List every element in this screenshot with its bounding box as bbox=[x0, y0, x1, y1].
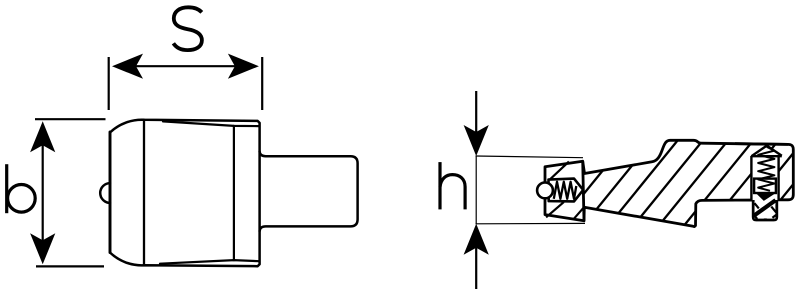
adapter body outline bbox=[110, 120, 260, 266]
channel top chamfer / spring seat bbox=[751, 146, 781, 157]
adapter internal vertical line x=144 bbox=[143, 120, 145, 266]
h arrow line top bbox=[475, 91, 477, 134]
ball-and-spring pocket (white) bbox=[549, 179, 584, 202]
plate hatch lines bbox=[546, 162, 584, 220]
b arrowhead up bbox=[30, 121, 55, 152]
h extension line bottom bbox=[476, 222, 586, 224]
square drive plug bbox=[260, 152, 358, 232]
h arrow line bottom bbox=[475, 246, 477, 289]
detent spring (horizontal zigzag) bbox=[554, 182, 577, 199]
S dimension line bbox=[134, 65, 237, 67]
pin head rectangle bbox=[754, 179, 776, 193]
protruding pin cross hatch bbox=[754, 200, 776, 216]
b extension line bottom bbox=[36, 265, 104, 267]
adapter internal vertical line x=234 bbox=[233, 126, 235, 260]
protruding pin (white) bbox=[755, 200, 776, 218]
adapter internal top ledge line bbox=[163, 121, 259, 126]
S arrowhead left bbox=[112, 54, 143, 79]
S extension line left bbox=[108, 57, 110, 110]
h connector line between extension lines bbox=[475, 156, 477, 224]
b arrowhead down bbox=[30, 233, 55, 264]
label S bbox=[173, 7, 202, 50]
pin channel walls bbox=[751, 156, 778, 200]
label h bbox=[440, 162, 465, 209]
pin tip (black chevron) bbox=[756, 193, 776, 201]
S arrowhead right bbox=[228, 54, 259, 79]
insert tool body outline bbox=[545, 140, 793, 226]
b dimension line bbox=[42, 143, 44, 242]
label b bbox=[7, 164, 36, 213]
channel shoulder line bbox=[751, 155, 781, 157]
adapter left edge (bolder) bbox=[109, 132, 112, 253]
adapter internal bottom ledge line bbox=[160, 260, 259, 264]
h arrowhead top (pointing down) bbox=[464, 125, 489, 156]
h arrowhead bottom (pointing up) bbox=[464, 224, 489, 255]
pin spring (vertical zigzag) bbox=[758, 147, 774, 191]
detent ball bump on left face bbox=[100, 183, 110, 203]
b extension line top bbox=[35, 118, 106, 120]
main body hatching (51 deg) bbox=[546, 114, 800, 240]
h extension line top bbox=[476, 156, 584, 158]
pin channel (white bore) bbox=[751, 156, 778, 200]
head top edge re-stroke over channel bbox=[735, 142, 788, 146]
S extension line right bbox=[261, 57, 263, 110]
plate right edge bbox=[583, 161, 584, 221]
detent ball bbox=[537, 183, 553, 199]
